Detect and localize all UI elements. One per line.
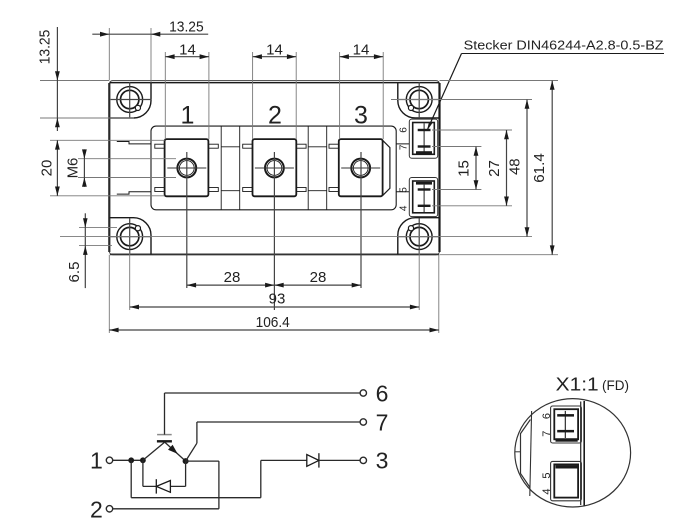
dimension 13.25 left: [37, 27, 135, 131]
module outer body outline: [109, 81, 439, 255]
svg-text:61.4: 61.4: [531, 153, 548, 183]
svg-text:20: 20: [39, 160, 56, 177]
corner flange pad top-left: [109, 83, 151, 118]
detail view circle: [515, 399, 631, 507]
dimension 14 terminal 3: [340, 42, 384, 140]
svg-text:6: 6: [541, 413, 553, 419]
detail connector 7/6: [551, 406, 582, 443]
dimension 14 terminal 1: [165, 42, 209, 140]
wire emitter node to terminal 2 riser: [186, 461, 219, 509]
right side extension lines: [60, 81, 558, 255]
svg-text:7: 7: [541, 431, 553, 437]
dimension M6: [65, 149, 176, 186]
wire node A down and right to diode D2: [131, 460, 307, 497]
terminal 6: [360, 380, 388, 406]
auxiliary connector 7/6 housing: [409, 119, 437, 158]
node A junction dot: [128, 457, 134, 463]
corner flange pad top-right: [398, 83, 440, 118]
auxiliary connector 4/5 housing: [409, 178, 437, 217]
detail view title X1:1 (FD): [556, 374, 629, 394]
svg-text:27: 27: [486, 160, 503, 177]
svg-text:2: 2: [90, 497, 103, 523]
svg-text:5: 5: [399, 187, 410, 193]
svg-text:3: 3: [376, 448, 389, 474]
svg-text:2: 2: [268, 102, 282, 130]
svg-text:15: 15: [456, 160, 473, 177]
svg-text:6: 6: [376, 380, 389, 406]
left housing step lines: [117, 142, 151, 195]
wire auxiliary emitter to terminal 7: [186, 422, 361, 461]
dimension 48: [507, 100, 530, 237]
svg-text:93: 93: [269, 291, 286, 308]
dimension 13.25 top: [92, 18, 208, 82]
svg-text:13.25: 13.25: [169, 18, 204, 35]
svg-text:13.25: 13.25: [37, 30, 54, 65]
corner flange pad bottom-left: [109, 218, 151, 255]
svg-text:14: 14: [179, 42, 196, 59]
dimension 93: [130, 291, 420, 310]
svg-text:6: 6: [399, 127, 410, 133]
svg-text:1: 1: [90, 448, 103, 474]
mounting hole top-right with circlip: [398, 82, 439, 118]
right housing step lines: [396, 144, 409, 192]
mounting hole bottom-left with circlip: [111, 218, 152, 254]
terminal 7: [360, 409, 388, 435]
dimension 27: [486, 130, 509, 206]
svg-text:Stecker DIN46244-A2.8-0.5-BZ: Stecker DIN46244-A2.8-0.5-BZ: [464, 38, 664, 53]
dimension 15: [456, 147, 479, 190]
detail module edge lines: [515, 401, 585, 506]
svg-text:M6: M6: [65, 158, 82, 179]
dimension 20 left: [39, 140, 165, 196]
svg-text:7: 7: [376, 409, 389, 435]
terminal 1: [90, 448, 113, 474]
svg-text:3: 3: [354, 102, 368, 130]
svg-text:4: 4: [541, 489, 553, 495]
svg-text:5: 5: [541, 473, 553, 479]
dimension 61.4: [531, 81, 555, 255]
terminal block 3: [329, 139, 390, 196]
mounting hole top-left with circlip: [111, 82, 152, 118]
corner flange pad bottom-right: [398, 218, 440, 255]
svg-text:14: 14: [266, 42, 283, 59]
emitter node junction dot: [183, 458, 189, 464]
svg-text:106.4: 106.4: [256, 314, 290, 331]
node B junction dot: [140, 457, 146, 463]
svg-text:1: 1: [181, 102, 195, 130]
svg-text:14: 14: [353, 42, 370, 59]
svg-text:28: 28: [310, 269, 327, 286]
terminal 3: [360, 448, 388, 474]
svg-text:28: 28: [224, 269, 241, 286]
svg-text:X1:1: X1:1: [556, 374, 599, 394]
wire gate to terminal 6: [165, 392, 361, 394]
extension lines below module: [109, 152, 439, 333]
terminal block 2: [243, 139, 306, 196]
IGBT Q1: [143, 393, 186, 461]
detail connector 4/5: [551, 461, 582, 500]
terminal block 1: [155, 139, 218, 196]
svg-text:6.5: 6.5: [66, 262, 83, 283]
dimension 14 terminal 2: [253, 42, 297, 140]
svg-text:(FD): (FD): [602, 377, 629, 393]
diode D2: [307, 453, 360, 467]
dimension 28 left: [187, 269, 275, 288]
svg-text:7: 7: [399, 144, 410, 150]
svg-text:48: 48: [507, 158, 524, 175]
leader line to pin 6: [427, 54, 664, 131]
wire terminal1 to node: [113, 459, 143, 461]
terminal 2: [90, 497, 219, 523]
dimension 6.5 hole: [66, 213, 117, 288]
free-wheel diode D1: [143, 460, 186, 493]
svg-text:4: 4: [399, 205, 410, 211]
dimension 28 right: [274, 269, 361, 288]
mounting hole bottom-right with circlip: [398, 218, 439, 254]
dimension 106.4: [109, 314, 439, 332]
lid plateau outline: [151, 126, 396, 210]
lid ridge lines between terminals: [221, 126, 327, 210]
